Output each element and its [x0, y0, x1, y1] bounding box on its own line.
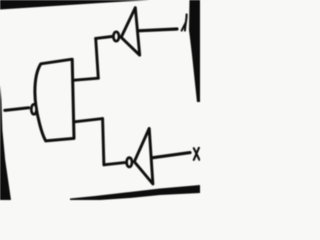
wire: top input A from right: [138, 29, 177, 31]
bottom page-edge band: [70, 185, 200, 200]
inverter U2 bubble (top): [113, 32, 119, 41]
nand output bubble: [31, 104, 36, 114]
wire: nand bottom input stub: [75, 119, 103, 122]
inverter U3 bubble (bottom): [127, 158, 132, 167]
label X (bottom-right input): [194, 148, 200, 160]
wire: link to top inverter bubble: [96, 37, 112, 39]
wire: nand output to left edge: [5, 108, 29, 111]
wire: vertical drop to bottom inverter: [103, 119, 104, 165]
inverter U3 triangle (bottom, left-pointing): [134, 128, 153, 184]
wire: bottom input X from right: [152, 153, 190, 158]
wire: link to bottom inverter bubble: [104, 163, 125, 165]
top page-edge band: [0, 0, 150, 10]
wire: vertical riser to top inverter: [96, 38, 99, 78]
nand gate U1 body (left-facing): [35, 59, 74, 141]
label A (top-right input): [182, 14, 187, 30]
left page-edge band: [0, 85, 11, 200]
wire: nand top input stub: [74, 78, 98, 80]
paper background: [0, 0, 200, 200]
inverter U2 triangle (top, left-pointing): [121, 8, 140, 56]
right page-edge band: [189, 0, 200, 102]
